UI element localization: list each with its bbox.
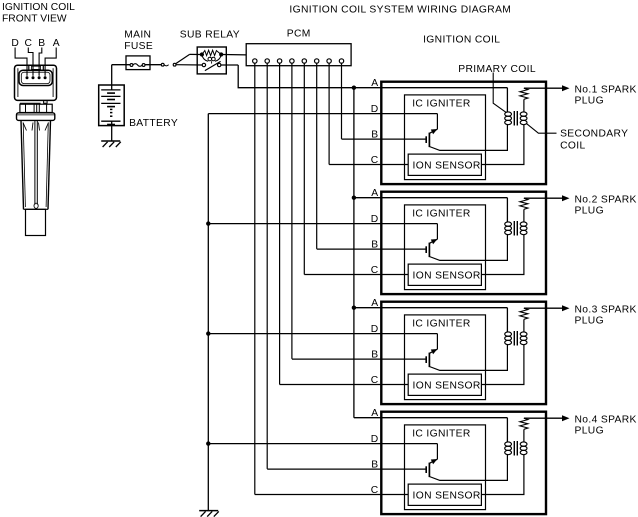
- svg-text:ION SENSOR: ION SENSOR: [413, 381, 481, 392]
- svg-text:C: C: [25, 38, 33, 49]
- svg-text:PCM: PCM: [287, 29, 311, 40]
- svg-text:A: A: [371, 78, 378, 89]
- svg-text:No.3 SPARK: No.3 SPARK: [575, 304, 637, 315]
- svg-text:MAIN: MAIN: [124, 29, 151, 40]
- svg-text:ION SENSOR: ION SENSOR: [413, 271, 481, 282]
- svg-text:PRIMARY COIL: PRIMARY COIL: [458, 64, 536, 75]
- svg-text:SUB RELAY: SUB RELAY: [180, 29, 240, 40]
- svg-text:IC IGNITER: IC IGNITER: [412, 209, 470, 220]
- svg-text:No.2 SPARK: No.2 SPARK: [575, 194, 637, 205]
- svg-text:IGNITION COIL SYSTEM WIRING DI: IGNITION COIL SYSTEM WIRING DIAGRAM: [289, 4, 511, 15]
- svg-text:IC IGNITER: IC IGNITER: [412, 99, 470, 110]
- svg-text:No.1 SPARK: No.1 SPARK: [575, 84, 637, 95]
- svg-text:ION SENSOR: ION SENSOR: [413, 161, 481, 172]
- svg-text:IC IGNITER: IC IGNITER: [412, 429, 470, 440]
- svg-text:No.4 SPARK: No.4 SPARK: [575, 414, 637, 425]
- svg-text:SECONDARY: SECONDARY: [560, 128, 628, 139]
- svg-text:IGNITION COIL: IGNITION COIL: [2, 2, 75, 13]
- svg-text:PLUG: PLUG: [575, 96, 604, 107]
- svg-text:B: B: [38, 38, 45, 49]
- svg-text:IC IGNITER: IC IGNITER: [412, 319, 470, 330]
- svg-text:ION SENSOR: ION SENSOR: [413, 491, 481, 502]
- svg-text:BATTERY: BATTERY: [129, 118, 178, 129]
- svg-text:D: D: [11, 38, 19, 49]
- svg-text:PLUG: PLUG: [575, 316, 604, 327]
- svg-text:A: A: [53, 38, 60, 49]
- svg-text:PLUG: PLUG: [575, 206, 604, 217]
- svg-text:FRONT VIEW: FRONT VIEW: [2, 14, 67, 25]
- svg-text:COIL: COIL: [560, 141, 585, 152]
- svg-text:PLUG: PLUG: [575, 426, 604, 437]
- svg-text:FUSE: FUSE: [124, 41, 153, 52]
- svg-text:IGNITION COIL: IGNITION COIL: [423, 35, 500, 46]
